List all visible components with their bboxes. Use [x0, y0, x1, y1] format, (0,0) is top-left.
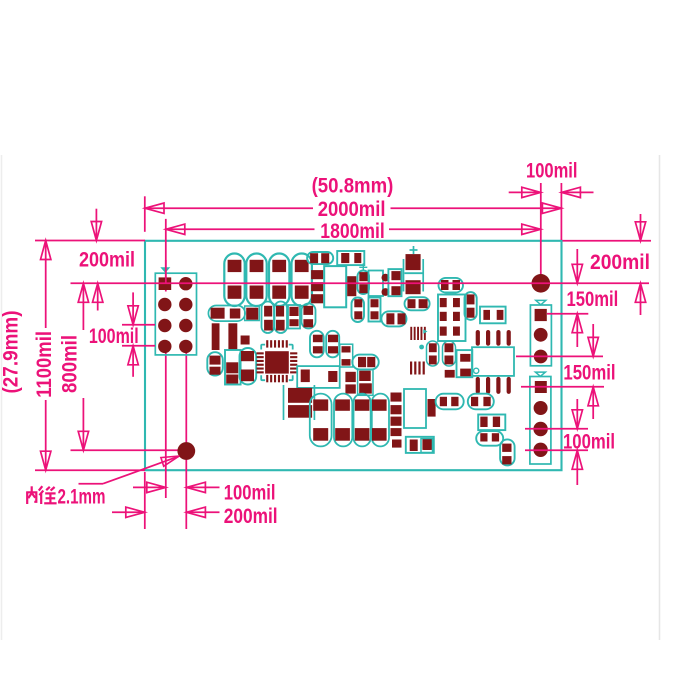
capacitor C18 pad bottom — [372, 428, 387, 441]
connector J2 outline — [530, 305, 551, 366]
resistor R10 outline — [381, 311, 406, 326]
resistor R7 outline — [352, 298, 365, 323]
capacitor C3 pad bottom — [272, 286, 286, 299]
capacitor C8 bar pad left — [212, 323, 220, 350]
IC U4 pins top — [266, 340, 288, 347]
resistor R22 pads — [480, 433, 499, 441]
regulator U1 body outline — [324, 266, 346, 307]
capacitor C12 outline — [358, 369, 373, 395]
resistor R23 pads — [502, 444, 511, 465]
crystal Y1 pad top — [382, 274, 390, 282]
pin bars left of U2 — [410, 362, 425, 375]
connector J1 pin6 pad — [179, 319, 192, 332]
IC U5 top outline — [439, 278, 464, 293]
capacitor C6 pads — [359, 272, 368, 293]
connector J1 pin8 pad — [179, 340, 192, 353]
label (27.9mm) — [0, 311, 23, 394]
capacitor C9 pad — [241, 336, 250, 345]
capacitor C18 pad top — [372, 399, 387, 410]
dimension line J3 pin1 — [521, 386, 604, 388]
capacitor C14 bracket left — [283, 385, 285, 420]
capacitor C7 outlined pad — [245, 306, 260, 321]
resistor R25 outline — [465, 292, 477, 320]
label 200mil left — [79, 247, 135, 271]
capacitor C21 pad — [445, 370, 455, 378]
dimension line J2 pin1 — [547, 313, 588, 315]
capacitor C13 pad — [345, 384, 355, 393]
capacitor C23 pads — [264, 306, 273, 331]
dimension 150mil-1 arrows — [572, 249, 582, 347]
capacitor C17 pad bottom — [355, 428, 370, 441]
extension line board-right x561.4 — [560, 183, 562, 240]
dimension line board top extension — [35, 240, 145, 242]
capacitor C6 outline — [358, 271, 370, 295]
extension line board-left bottom — [144, 472, 146, 529]
connector J1 outline — [155, 273, 196, 355]
capacitor C5 plus mark — [410, 246, 418, 254]
label 2000mil — [318, 197, 386, 221]
dimension line J3 pin4 — [525, 449, 588, 451]
capacitor C22 pad — [421, 439, 433, 453]
IC U3 pin1 marker — [474, 368, 479, 373]
IC U2 pad right — [428, 399, 436, 417]
label 100mil J1 — [89, 324, 139, 348]
resistor R7 pads — [354, 299, 362, 319]
capacitor C20 pads — [460, 354, 471, 376]
dimension 100mil bottom line — [133, 482, 220, 492]
capacitor C4 pad bottom — [295, 286, 309, 299]
capacitor C5 bracket left — [403, 259, 405, 292]
resistor R8 outline — [369, 298, 381, 322]
capacitor C16 outline — [334, 394, 352, 447]
capacitor C5 pad top — [406, 254, 421, 270]
resistor R6 outline — [302, 304, 316, 329]
capacitor C17 outline — [354, 394, 371, 447]
label 内径2.1mm — [26, 485, 105, 509]
resistor R15 outline — [225, 350, 241, 385]
connector J3 outline — [530, 377, 551, 465]
capacitor C19 outline — [406, 437, 434, 453]
dimension line J1 row3 — [122, 324, 155, 326]
resistor R6 pads — [303, 306, 313, 328]
resistor R11 pads — [313, 335, 323, 354]
svg-text:150mil: 150mil — [563, 361, 615, 385]
resistor R17 outline — [427, 341, 439, 366]
dimension line J1 row4 — [122, 345, 155, 347]
regulator U1 pin3 — [311, 294, 323, 303]
IC U5 body outline — [438, 295, 466, 342]
connector J1 pin2 pad — [179, 277, 192, 290]
IC U2 body outline — [404, 389, 426, 428]
IC U5 pads row3 — [440, 327, 460, 336]
capacitor C2 pad top — [250, 260, 264, 272]
resistor array RN1 marker — [423, 329, 427, 333]
svg-text:100mil: 100mil — [563, 429, 615, 453]
svg-text:200mil: 200mil — [79, 247, 135, 271]
capacitor C24 pads — [276, 306, 285, 331]
capacitor C19 pads — [410, 438, 433, 451]
capacitor C3 outline — [269, 254, 289, 307]
capacitor C16 pad top — [335, 399, 350, 410]
crystal Y1 body outline — [369, 271, 384, 297]
connector J1 pin5 pad — [158, 319, 171, 332]
resistor R5 outline — [288, 305, 300, 329]
connector J1 pin3 pad — [158, 298, 171, 311]
resistor R19 pads — [440, 397, 459, 406]
label 1800mil — [320, 219, 385, 243]
capacitor C4 pad top — [295, 260, 309, 272]
capacitor C15 pad top — [313, 399, 328, 410]
capacitor C5 middle bar — [405, 272, 424, 274]
connector J3 pin1 square pad — [535, 381, 547, 393]
resistor R12 outline — [326, 331, 339, 358]
resistor R20 outline — [468, 394, 494, 410]
IC U4 pins right — [290, 352, 297, 373]
regulator U1 pin1 — [311, 270, 323, 279]
capacitor C14 pad bottom — [288, 405, 312, 418]
test point TP1 — [419, 345, 424, 350]
connector J1 pin4 pad — [179, 298, 192, 311]
label (50.8mm) — [312, 173, 394, 197]
capacitor C14 pad top — [288, 388, 312, 403]
IC U4 courtyard corners — [261, 345, 293, 381]
capacitor C10 pads — [241, 351, 254, 381]
dimension 200mil left arrows — [91, 209, 103, 311]
connector J3 pin1 marker — [535, 372, 545, 376]
extension line big-pad x540.8 — [540, 183, 542, 283]
resistor R16 outline — [352, 355, 378, 370]
svg-text:(50.8mm): (50.8mm) — [312, 173, 394, 197]
label 1100mil — [32, 331, 56, 398]
regulator U1 pin2 — [311, 282, 323, 291]
IC U3 pins bottom — [476, 377, 511, 394]
svg-text:2000mil: 2000mil — [318, 197, 386, 221]
resistor R22 outline — [476, 431, 503, 446]
resistor R1 pads — [310, 253, 329, 263]
svg-text:150mil: 150mil — [567, 287, 619, 311]
resistor R13 pads — [342, 346, 351, 365]
connector J3 pin4 pad — [533, 443, 547, 457]
resistor R1 outline — [307, 252, 333, 264]
resistor R10 pads — [386, 313, 405, 324]
inductor L1 outline — [208, 306, 245, 322]
IC U5 pads row1 — [440, 298, 460, 307]
capacitor C5 pad bottom — [406, 280, 421, 294]
PCB board outline — [145, 241, 562, 470]
resistor R18 pads — [445, 343, 454, 364]
svg-text:800mil: 800mil — [57, 335, 81, 393]
dimension 200mil right arrows — [635, 214, 645, 315]
resistor R24 outline — [480, 307, 506, 324]
svg-text:200mil: 200mil — [590, 250, 650, 274]
capacitor C2 outline — [246, 254, 266, 307]
label 100mil bottom — [224, 480, 276, 504]
dimension line board bottom extension — [35, 469, 145, 471]
resistor R21 outline — [478, 415, 505, 431]
resistor R2 pads — [341, 253, 361, 263]
IC U4 body — [265, 351, 289, 373]
IC U5 pads row2 — [440, 312, 460, 321]
svg-text:2.1mm: 2.1mm — [58, 485, 106, 509]
dimension 150mil-2 arrows — [588, 324, 598, 419]
resistor R21 pads — [480, 417, 500, 427]
svg-text:1100mil: 1100mil — [32, 331, 56, 398]
connector J1 pin1 square pad — [159, 277, 172, 290]
capacitor C12 pads — [359, 371, 372, 394]
inductor L1 pad left — [211, 308, 225, 319]
connector J3 pin3 pad — [533, 422, 547, 436]
label 100mil right — [563, 429, 615, 453]
resistor R16 pads — [358, 357, 375, 367]
resistor R24 pads — [483, 310, 503, 320]
resistor R4 pads — [391, 271, 400, 295]
extension line board-left top — [144, 196, 146, 232]
connector J2 pin2 pad — [534, 328, 548, 342]
connector J2 pin1 marker — [536, 300, 546, 304]
capacitor C3 pad top — [272, 260, 286, 272]
capacitor C6 plus mark — [359, 263, 367, 271]
dimension line J3 pin3 — [525, 428, 588, 430]
dimension 800mil line — [78, 283, 88, 450]
svg-text:200mil: 200mil — [224, 504, 278, 528]
resistor R9 outline — [405, 297, 430, 310]
resistor R18 outline — [443, 341, 456, 366]
dimension line pad row y283 — [71, 282, 650, 284]
capacitor C4 outline — [292, 254, 312, 307]
IC U2 pin pads left — [391, 393, 402, 426]
resistor R2 outline — [337, 251, 364, 265]
dimension 100mil top line — [509, 187, 594, 197]
resistor R5 pads — [289, 307, 298, 326]
capacitor C5 bracket right — [422, 259, 424, 292]
resistor R14 outline — [207, 352, 223, 375]
resistor array RN1 pads — [410, 327, 426, 340]
capacitor C10 outline — [240, 348, 257, 385]
dimension 1100mil line — [41, 241, 51, 471]
inductor L2 outline — [297, 366, 340, 388]
callout leader line — [79, 456, 180, 484]
resistor R11 outline — [310, 331, 324, 358]
dimension 100mil J1 arrows — [128, 292, 138, 376]
resistor R19 outline — [436, 394, 464, 410]
label 200mil bottom — [224, 504, 278, 528]
resistor R17 pads — [429, 343, 437, 364]
label 150mil-2 — [563, 361, 615, 385]
capacitor C14 bracket right — [313, 385, 315, 420]
capacitor C1 pad top — [228, 260, 242, 272]
capacitor C1 pad bottom — [228, 286, 242, 299]
resistor R13 outline — [340, 344, 353, 367]
capacitor C15 pad bottom — [313, 428, 328, 441]
extension line J1 pin1 top — [165, 260, 167, 283]
capacitor C1 outline — [224, 254, 244, 307]
dimension line board top extension right — [563, 240, 652, 242]
dimension 200mil bottom line — [112, 507, 220, 517]
IC U4 pins bottom — [266, 375, 288, 382]
crystal Y1 pad bottom — [382, 288, 390, 296]
inductor L1 pad right — [230, 309, 241, 319]
dimension line J2 pin3 — [516, 355, 603, 357]
page border right — [659, 155, 661, 640]
capacitor C20 outline — [457, 350, 473, 377]
resistor R20 pads — [471, 397, 491, 406]
capacitor C17 pad top — [355, 399, 370, 410]
dimension line hole row y450 — [71, 449, 178, 451]
dimension 100mil right arrows — [572, 399, 582, 485]
IC U2 extra pads left — [391, 428, 402, 448]
dimension 2000mil line — [145, 203, 561, 213]
connector J1 pin7 pad — [158, 340, 171, 353]
IC U3 pins top — [476, 330, 511, 346]
resistor R14 pads — [210, 356, 221, 375]
connector J2 pin1 square pad — [535, 309, 547, 321]
capacitor C24 outline — [275, 302, 288, 334]
hole pad top-right — [532, 274, 551, 293]
connector J3 pin2 pad — [534, 401, 548, 415]
capacitor C11 pad — [345, 372, 355, 382]
label 100mil top — [526, 159, 578, 183]
resistor R4 outline — [388, 269, 401, 296]
resistor R9 pads — [408, 299, 428, 308]
capacitor C18 outline — [372, 394, 389, 447]
IC U3 body outline — [472, 347, 514, 376]
regulator U1 tab pad — [347, 276, 356, 296]
resistor R23 outline — [500, 439, 514, 465]
capacitor C8 bar pad right — [228, 323, 237, 350]
capacitor C16 pad bottom — [335, 428, 350, 441]
IC U5 top pads — [441, 280, 460, 290]
IC U4 pins left — [257, 352, 264, 373]
inductor L2 pad right — [328, 371, 337, 382]
connector J1 pin1 marker — [160, 267, 170, 273]
connector J2 pin3 pad — [534, 350, 548, 364]
resistor R25 pads — [467, 294, 475, 317]
hole pad bottom-left — [177, 442, 195, 460]
capacitor C23 outline — [262, 302, 275, 334]
resistor R12 pads — [328, 335, 338, 354]
svg-text:100mil: 100mil — [89, 324, 139, 348]
svg-text:(27.9mm): (27.9mm) — [0, 311, 23, 394]
extension line col1 x165.8 — [165, 219, 167, 498]
page border left — [1, 155, 3, 640]
svg-text:100mil: 100mil — [224, 480, 276, 504]
svg-text:1800mil: 1800mil — [320, 219, 385, 243]
extension line col2 x186.3 — [185, 353, 187, 529]
label 150mil-1 — [567, 287, 619, 311]
capacitor C15 outline — [310, 394, 332, 447]
label 200mil right — [590, 250, 650, 274]
inductor L2 pad left — [301, 370, 310, 383]
svg-text:100mil: 100mil — [526, 159, 578, 183]
resistor R15 pads — [226, 362, 238, 383]
dimension 1800mil line — [166, 224, 541, 234]
capacitor C2 pad bottom — [250, 286, 264, 299]
resistor R8 pads — [371, 299, 379, 319]
label 800mil — [57, 335, 81, 393]
